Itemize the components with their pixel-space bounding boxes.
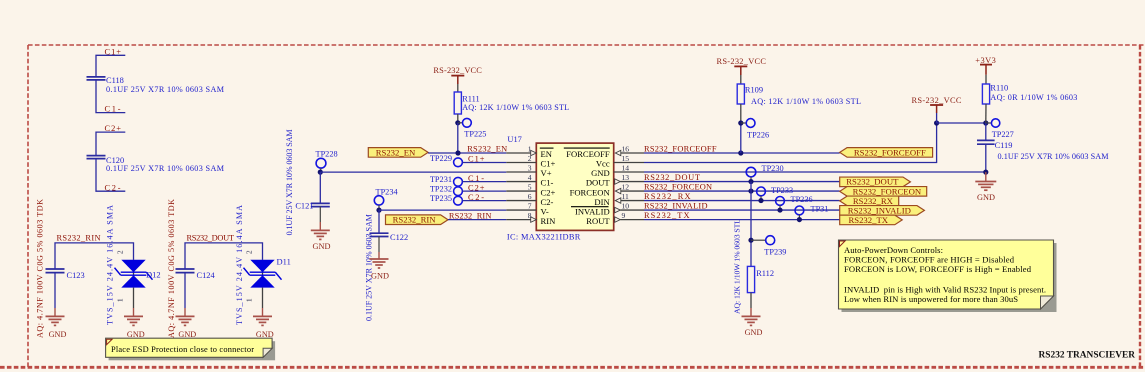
capacitor C118 xyxy=(87,76,225,94)
svg-text:RS232 TRANSCIEVER: RS232 TRANSCIEVER xyxy=(1039,351,1136,361)
svg-text:FORCEON: FORCEON xyxy=(570,187,611,197)
svg-text:6: 6 xyxy=(528,192,532,201)
svg-text:TP31: TP31 xyxy=(811,204,829,213)
svg-text:ROUT: ROUT xyxy=(586,216,610,226)
wire xyxy=(96,80,125,113)
test point TP239 xyxy=(751,236,786,257)
svg-text:0.1UF 25V X7R 10% 0603 SAM: 0.1UF 25V X7R 10% 0603 SAM xyxy=(106,164,225,173)
svg-text:RS232_FORCEOFF: RS232_FORCEOFF xyxy=(854,147,926,157)
svg-text:C122: C122 xyxy=(390,233,408,242)
svg-text:GND: GND xyxy=(178,330,196,339)
wire xyxy=(379,209,506,211)
wire xyxy=(378,237,380,260)
svg-text:TVS_15V 24.4V 16.4A SMA: TVS_15V 24.4V 16.4A SMA xyxy=(106,205,115,325)
test point TP227 xyxy=(986,119,1014,139)
junction xyxy=(748,238,753,243)
ground xyxy=(975,172,996,202)
svg-text:C2+: C2+ xyxy=(541,187,556,197)
svg-text:TP225: TP225 xyxy=(464,129,486,138)
svg-text:RS232_INVALID: RS232_INVALID xyxy=(848,205,911,215)
svg-text:TP239: TP239 xyxy=(764,247,786,256)
svg-text:RS-232_VCC: RS-232_VCC xyxy=(433,66,482,75)
wire net RS232_FORCEOFF xyxy=(644,152,840,154)
port RS232_RX xyxy=(840,196,899,206)
test point TP228 xyxy=(316,149,338,172)
svg-text:C124: C124 xyxy=(197,271,216,280)
svg-text:RS232_TX: RS232_TX xyxy=(644,211,690,220)
svg-text:RS232_TX: RS232_TX xyxy=(848,215,888,225)
svg-text:EN: EN xyxy=(541,149,553,159)
net label RS232_INVALID xyxy=(644,202,708,211)
port RS232_INVALID xyxy=(840,205,925,215)
node C1+ xyxy=(468,155,485,164)
wire xyxy=(448,219,506,221)
node C2+ xyxy=(468,184,485,193)
svg-text:0.1UF 25V X7R 10% 0603 SAM: 0.1UF 25V X7R 10% 0603 SAM xyxy=(998,152,1110,161)
wire xyxy=(378,210,380,233)
ground xyxy=(742,316,763,337)
svg-text:RS232_EN: RS232_EN xyxy=(376,147,416,157)
net label RS232_RIN xyxy=(57,233,101,242)
svg-text:Place ESD Protection close to: Place ESD Protection close to connector xyxy=(111,345,254,354)
svg-text:GND: GND xyxy=(745,328,763,337)
svg-text:Low when RIN is unpowered for: Low when RIN is unpowered for more than … xyxy=(844,294,1018,304)
junction xyxy=(318,170,323,175)
power RS-232_VCC (R109) xyxy=(717,57,767,75)
junction xyxy=(934,120,939,125)
net label RS232_EN xyxy=(467,144,507,153)
svg-text:0.1UF 25V X7R 10% 0603 SAM: 0.1UF 25V X7R 10% 0603 SAM xyxy=(365,214,374,321)
svg-text:RS232_FORCEON: RS232_FORCEON xyxy=(853,186,922,196)
ground xyxy=(370,259,389,280)
pin 2 C1+ xyxy=(506,154,555,169)
pin 4 C1- xyxy=(506,173,553,188)
svg-text:V+: V+ xyxy=(541,168,552,178)
wire xyxy=(320,171,506,173)
svg-text:FORCEOFF: FORCEOFF xyxy=(566,149,610,159)
test point TP226 xyxy=(741,119,769,140)
svg-text:C1-: C1- xyxy=(105,105,121,114)
svg-text:DOUT: DOUT xyxy=(586,178,611,188)
svg-text:7: 7 xyxy=(528,201,532,210)
wire net Vcc xyxy=(644,123,937,163)
port RS232_FORCEOFF xyxy=(840,147,933,157)
wire net RS232_RX xyxy=(644,200,840,202)
wire xyxy=(96,159,125,192)
svg-text:R112: R112 xyxy=(756,269,774,278)
svg-text:GND: GND xyxy=(49,330,67,339)
junction xyxy=(455,120,460,125)
svg-text:GND: GND xyxy=(127,330,145,339)
wire (R112 pull) xyxy=(750,182,752,267)
svg-text:GND: GND xyxy=(977,193,995,202)
junction xyxy=(738,150,743,155)
svg-text:TP232: TP232 xyxy=(430,184,452,193)
wire xyxy=(985,144,987,172)
net label RS232_FORCEON xyxy=(644,183,712,192)
svg-text:TVS_15V 24.4V 16.4A SMA: TVS_15V 24.4V 16.4A SMA xyxy=(235,205,244,325)
svg-text:4: 4 xyxy=(528,173,532,182)
net label RS232_DOUT xyxy=(644,173,700,182)
svg-text:GND: GND xyxy=(591,168,610,178)
wire xyxy=(462,162,506,164)
node C2- xyxy=(105,183,121,192)
resistor R111 xyxy=(454,84,569,123)
test point TP225 xyxy=(458,118,487,138)
svg-text:DIN: DIN xyxy=(594,197,610,207)
junction xyxy=(748,188,753,193)
junction xyxy=(777,207,782,212)
svg-text:D11: D11 xyxy=(277,256,291,266)
junction xyxy=(748,179,753,184)
wire xyxy=(133,288,135,317)
junction xyxy=(983,170,988,175)
port RS232_RIN xyxy=(386,215,449,225)
sheet title RS232 TRANSCIEVER xyxy=(1039,351,1136,361)
svg-text:INVALID pin is High with Vali: INVALID pin is High with Valid RS232 Inp… xyxy=(844,285,1046,295)
ground xyxy=(46,316,67,339)
svg-text:RIN: RIN xyxy=(541,216,557,226)
test point TP236 xyxy=(776,195,813,210)
ground xyxy=(253,316,274,339)
svg-text:1: 1 xyxy=(528,144,532,153)
svg-text:AQ: 0R 1/10W 1% 0603: AQ: 0R 1/10W 1% 0603 xyxy=(990,93,1077,102)
port RS232_FORCEON xyxy=(840,186,927,196)
svg-text:TP236: TP236 xyxy=(791,195,813,204)
test point TP231 xyxy=(430,175,463,186)
pin 15 Vcc xyxy=(596,154,644,169)
svg-text:RS232_FORCEOFF: RS232_FORCEOFF xyxy=(644,145,717,154)
junction xyxy=(983,120,988,125)
pin 1 EN xyxy=(506,144,553,159)
svg-text:RS232_DOUT: RS232_DOUT xyxy=(644,173,700,182)
svg-text:AQ: 12K 1/10W 1% 0603 STL: AQ: 12K 1/10W 1% 0603 STL xyxy=(462,103,569,112)
svg-text:TP230: TP230 xyxy=(762,164,784,173)
svg-text:0.1UF 25V X7R 10% 0603 SAM: 0.1UF 25V X7R 10% 0603 SAM xyxy=(106,85,225,94)
svg-text:2: 2 xyxy=(528,154,532,163)
svg-text:RS232_DOUT: RS232_DOUT xyxy=(846,177,899,187)
tvs diode D11 xyxy=(235,205,291,325)
junction xyxy=(797,217,802,222)
svg-text:D12: D12 xyxy=(146,270,161,280)
pin 5 C2+ xyxy=(506,182,555,197)
svg-text:FORCEON, FORCEOFF are HIGH = D: FORCEON, FORCEOFF are HIGH = Disabled xyxy=(844,255,1015,265)
svg-text:14: 14 xyxy=(622,163,630,172)
net label RS232_TX xyxy=(644,211,690,220)
svg-text:1: 1 xyxy=(116,298,125,302)
svg-text:Auto-PowerDown Controls:: Auto-PowerDown Controls: xyxy=(844,245,943,255)
svg-text:0.1UF 25V X7R 10% 0603 SAM: 0.1UF 25V X7R 10% 0603 SAM xyxy=(285,129,294,235)
power RS-232_VCC xyxy=(433,66,482,84)
svg-text:RS232_RIN: RS232_RIN xyxy=(393,215,437,225)
net label RS232_RIN xyxy=(449,211,492,220)
capacitor C123 xyxy=(36,199,85,338)
svg-text:10: 10 xyxy=(622,201,630,210)
resistor R110 xyxy=(982,75,1077,123)
pin 3 V+ xyxy=(506,163,551,178)
resistor R109 xyxy=(737,75,861,123)
svg-text:TP229: TP229 xyxy=(430,154,452,163)
svg-text:5: 5 xyxy=(528,182,532,191)
test point TP232 xyxy=(430,184,463,195)
capacitor C121 xyxy=(285,129,330,235)
ground xyxy=(176,316,197,339)
note Place ESD Protection close to connector xyxy=(106,338,276,360)
svg-text:R109: R109 xyxy=(745,86,763,95)
svg-text:2: 2 xyxy=(116,250,125,254)
ground xyxy=(311,230,331,251)
svg-text:TP233: TP233 xyxy=(771,186,793,195)
port RS232_DOUT xyxy=(840,177,911,187)
pin 12 FORCEON xyxy=(570,182,644,197)
svg-text:AQ: 4.7NF 100V C0G 5% 0603 TDK: AQ: 4.7NF 100V C0G 5% 0603 TDK xyxy=(167,199,176,338)
wire net RS232_FORCEON xyxy=(644,190,840,192)
svg-text:AQ: 12K 1/10W 1% 0603 STL: AQ: 12K 1/10W 1% 0603 STL xyxy=(733,219,742,314)
svg-text:C1-: C1- xyxy=(541,178,554,188)
svg-text:2: 2 xyxy=(245,250,254,254)
svg-text:INVALID: INVALID xyxy=(575,206,610,216)
svg-text:RS-232_VCC: RS-232_VCC xyxy=(717,57,767,66)
capacitor C124 xyxy=(167,199,215,338)
svg-text:V-: V- xyxy=(541,206,549,216)
op IC U17 MAX3221 body xyxy=(507,135,614,241)
wire net GND xyxy=(644,171,986,173)
svg-text:C119: C119 xyxy=(995,141,1013,150)
svg-text:Vcc: Vcc xyxy=(596,159,610,169)
pin 8 RIN xyxy=(506,211,556,226)
svg-text:U17: U17 xyxy=(507,135,521,144)
capacitor C120 xyxy=(87,156,225,174)
wire xyxy=(185,243,263,269)
test point TP230 xyxy=(746,164,783,181)
capacitor C119 xyxy=(977,140,1109,160)
svg-text:1: 1 xyxy=(245,298,254,302)
tvs diode D12 xyxy=(106,205,161,325)
pin 16 FORCEOFF xyxy=(564,144,644,159)
junction xyxy=(738,120,743,125)
wire xyxy=(985,123,987,140)
wire xyxy=(740,123,742,153)
wire net RS232_TX xyxy=(644,219,840,221)
svg-text:GND: GND xyxy=(371,271,389,280)
ground xyxy=(124,316,145,339)
svg-text:C123: C123 xyxy=(67,271,85,280)
wire xyxy=(937,122,986,124)
svg-text:RS232_RX: RS232_RX xyxy=(644,192,691,201)
svg-text:C2-: C2- xyxy=(541,197,554,207)
wire xyxy=(184,273,186,317)
pin 14 GND xyxy=(591,163,644,178)
svg-text:C121: C121 xyxy=(295,201,313,210)
note Auto-PowerDown Controls xyxy=(839,240,1057,312)
svg-text:R110: R110 xyxy=(990,84,1008,93)
svg-text:RS232_DOUT: RS232_DOUT xyxy=(187,233,235,242)
node C2- xyxy=(468,193,484,202)
junction xyxy=(376,208,381,213)
port RS232_TX xyxy=(840,215,903,225)
test point TP234 xyxy=(374,187,398,210)
wire xyxy=(462,200,506,202)
wire xyxy=(462,190,506,192)
svg-text:8: 8 xyxy=(528,211,532,220)
pin 10 INVALID xyxy=(571,201,644,216)
wire net RS232_DOUT xyxy=(644,181,840,183)
svg-text:C118: C118 xyxy=(106,76,124,85)
power RS-232_VCC (mid) xyxy=(912,96,962,123)
node C2+ xyxy=(96,124,125,156)
port RS232_EN xyxy=(368,147,428,157)
pin 13 DOUT xyxy=(586,173,644,188)
svg-text:TP235: TP235 xyxy=(430,194,452,203)
svg-text:GND: GND xyxy=(256,330,274,339)
pin 9 ROUT xyxy=(586,211,644,226)
wire xyxy=(319,172,321,203)
svg-text:AQ: 12K 1/10W 1% 0603 STL: AQ: 12K 1/10W 1% 0603 STL xyxy=(751,97,861,106)
svg-text:GND: GND xyxy=(313,242,331,251)
svg-text:FORCEON is LOW, FORCEOFF is Hi: FORCEON is LOW, FORCEOFF is High = Enabl… xyxy=(844,264,1032,274)
pin 6 C2- xyxy=(506,192,553,207)
resistor R112 xyxy=(733,219,775,317)
svg-text:RS232_INVALID: RS232_INVALID xyxy=(644,202,708,211)
svg-text:15: 15 xyxy=(622,154,630,163)
svg-text:C2-: C2- xyxy=(105,183,121,192)
capacitor C122 xyxy=(365,214,409,321)
svg-text:C1+: C1+ xyxy=(541,159,556,169)
svg-text:12: 12 xyxy=(622,182,630,191)
junction xyxy=(758,198,763,203)
svg-text:RS-232_VCC: RS-232_VCC xyxy=(912,96,962,105)
svg-text:TP226: TP226 xyxy=(747,131,769,140)
wire xyxy=(457,123,459,153)
net label RS232_DOUT xyxy=(187,233,235,242)
svg-text:3: 3 xyxy=(528,163,532,172)
svg-text:TP228: TP228 xyxy=(316,149,338,158)
wire xyxy=(428,152,506,154)
wire xyxy=(319,207,321,231)
test point TP235 xyxy=(430,194,463,205)
test point TP229 xyxy=(430,154,463,167)
wire xyxy=(262,288,264,317)
power +3V3 xyxy=(975,56,996,75)
svg-text:RS232_RX: RS232_RX xyxy=(853,196,894,206)
svg-text:11: 11 xyxy=(622,192,630,201)
net label RS232_RX xyxy=(644,192,691,201)
node C1+ xyxy=(96,48,125,77)
wire xyxy=(54,273,56,317)
test point TP233 xyxy=(757,186,794,201)
svg-text:RS232_RIN: RS232_RIN xyxy=(449,211,492,220)
wire xyxy=(55,243,134,269)
svg-text:RS232_RIN: RS232_RIN xyxy=(57,233,101,242)
net label RS232_FORCEOFF xyxy=(644,145,717,154)
node C1- xyxy=(468,174,484,183)
svg-text:TP227: TP227 xyxy=(992,130,1014,139)
pin 7 V- xyxy=(506,201,549,216)
pin 11 DIN xyxy=(594,192,644,207)
svg-text:16: 16 xyxy=(622,144,630,153)
svg-text:IC: MAX3221IDBR: IC: MAX3221IDBR xyxy=(507,233,581,242)
svg-text:13: 13 xyxy=(622,173,630,182)
svg-text:9: 9 xyxy=(622,211,626,220)
svg-text:TP231: TP231 xyxy=(430,175,452,184)
wire xyxy=(462,181,506,183)
node C1- xyxy=(105,105,121,114)
svg-text:RS232_FORCEON: RS232_FORCEON xyxy=(644,183,712,192)
wire net RS232_INVALID xyxy=(644,209,840,211)
svg-text:AQ: 4.7NF 100V C0G 5% 0603 TDK: AQ: 4.7NF 100V C0G 5% 0603 TDK xyxy=(36,199,45,338)
test point TP31 xyxy=(795,204,828,219)
junction xyxy=(455,150,460,155)
svg-text:RS232_EN: RS232_EN xyxy=(467,144,507,153)
